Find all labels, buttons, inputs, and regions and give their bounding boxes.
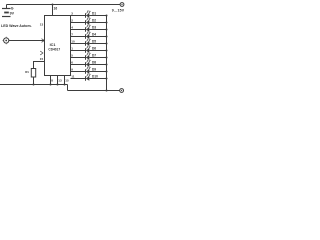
node D1 bus junction xyxy=(106,15,108,17)
node D2 bus junction xyxy=(106,22,108,24)
svg-text:D1: D1 xyxy=(92,12,96,16)
svg-text:IC1: IC1 xyxy=(50,43,56,47)
svg-text:D2: D2 xyxy=(92,19,96,23)
LED D7 xyxy=(86,53,91,60)
svg-text:D4: D4 xyxy=(92,33,96,37)
LED D10 xyxy=(86,74,91,81)
wire Vdd stub to IC xyxy=(52,5,54,16)
LED D8 xyxy=(86,60,91,67)
wire LED D1 to bus xyxy=(89,15,106,17)
node D3 bus junction xyxy=(106,29,108,31)
wire IC output pin Q8 xyxy=(71,71,86,73)
node D6 bus junction xyxy=(106,50,108,52)
wire IC output pin Q4 xyxy=(71,43,86,45)
wire LED D9 to bus xyxy=(89,71,106,73)
wire IC output pin Q1 xyxy=(71,22,86,24)
wire LED D7 to bus xyxy=(89,57,106,59)
pin 8 stub xyxy=(50,76,52,85)
svg-text:10: 10 xyxy=(71,40,75,44)
node pin 8 junction xyxy=(50,84,52,86)
svg-text:R1: R1 xyxy=(25,70,29,74)
svg-text:16: 16 xyxy=(54,6,58,10)
LED D4 xyxy=(86,32,91,39)
node D4 bus junction xyxy=(106,36,108,38)
wire LED D4 to bus xyxy=(89,36,106,38)
terminal +V top right xyxy=(120,3,124,7)
svg-text:D8: D8 xyxy=(92,61,96,65)
LED D3 xyxy=(86,25,91,32)
pin 15 stub xyxy=(64,76,66,85)
wire ground rail right xyxy=(68,90,120,92)
wire ground rail left xyxy=(0,84,68,86)
wire top supply rail xyxy=(7,4,121,6)
svg-text:13: 13 xyxy=(40,23,44,27)
node D8 bus junction xyxy=(106,64,108,66)
wire LED D10 to bus xyxy=(89,78,106,80)
wire LED D5 to bus xyxy=(89,43,106,45)
svg-text:CD4017: CD4017 xyxy=(48,48,60,52)
node pin 15 junction xyxy=(64,84,66,86)
svg-text:D10: D10 xyxy=(92,75,98,79)
wire LED cathode bus xyxy=(106,16,108,91)
LED D2 xyxy=(86,18,91,25)
wire IC output pin Q9 xyxy=(71,78,86,80)
svg-text:LED Wave Autom.: LED Wave Autom. xyxy=(1,24,32,28)
wire IC output pin Q5 xyxy=(71,50,86,52)
svg-text:13: 13 xyxy=(58,79,62,83)
svg-text:D9: D9 xyxy=(92,68,96,72)
LED D1 xyxy=(86,11,91,18)
node D9 bus junction xyxy=(106,71,108,73)
node supply junction xyxy=(52,4,54,6)
node D5 bus junction xyxy=(106,43,108,45)
node bus to ground rail xyxy=(106,90,108,92)
wire IC output pin Q6 xyxy=(71,57,86,59)
svg-text:D5: D5 xyxy=(92,40,96,44)
clock source X1 xyxy=(2,37,8,45)
LED D9 xyxy=(86,67,91,74)
node D10 bus junction xyxy=(106,78,108,80)
battery BT1 xyxy=(2,5,15,17)
wire LED D3 to bus xyxy=(89,29,106,31)
resistor R1 xyxy=(25,69,36,85)
svg-text:15: 15 xyxy=(65,79,69,83)
svg-text:9V: 9V xyxy=(10,11,15,15)
pin 13 stub xyxy=(57,76,59,85)
wire LED D8 to bus xyxy=(89,64,106,66)
wire IC output pin Q7 xyxy=(71,64,86,66)
wire IC output pin Q3 xyxy=(71,36,86,38)
svg-text:G: G xyxy=(11,7,14,11)
svg-text:D6: D6 xyxy=(92,47,96,51)
node R1 ground junction xyxy=(33,84,35,86)
node pin 13 junction xyxy=(57,84,59,86)
wire ground drop xyxy=(67,85,69,91)
LED D6 xyxy=(86,46,91,53)
terminal 0V bottom right xyxy=(120,89,124,93)
wire LED D2 to bus xyxy=(89,22,106,24)
svg-text:8: 8 xyxy=(51,79,53,83)
wire reset pin to R1 xyxy=(34,62,45,69)
svg-text:11: 11 xyxy=(71,75,75,79)
wire IC output pin Q2 xyxy=(71,29,86,31)
svg-text:15: 15 xyxy=(40,57,44,61)
pin chevron input marker xyxy=(40,51,43,55)
wire clock input to IC pin 14 xyxy=(9,39,45,43)
svg-text:D7: D7 xyxy=(92,54,96,58)
svg-text:9...15V: 9...15V xyxy=(112,9,125,13)
LED D5 xyxy=(86,39,91,46)
svg-text:D3: D3 xyxy=(92,26,96,30)
node D7 bus junction xyxy=(106,57,108,59)
wire LED D6 to bus xyxy=(89,50,106,52)
IC U1 4017 body xyxy=(45,16,71,76)
wire IC output pin Q0 xyxy=(71,15,86,17)
